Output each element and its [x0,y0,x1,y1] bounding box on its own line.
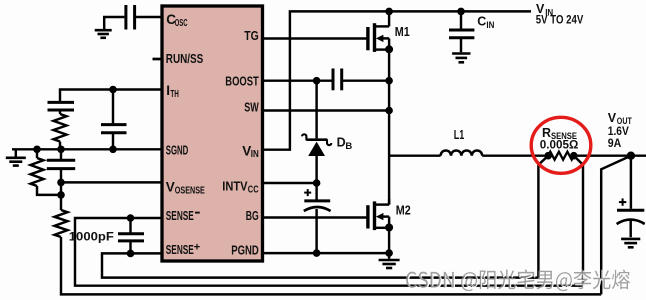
svg-text:V: V [166,179,175,194]
svg-text:OSC: OSC [175,18,188,29]
svg-text:B: B [345,141,352,152]
svg-text:TG: TG [244,28,259,43]
svg-text:BG: BG [246,208,259,223]
svg-text:1000pF: 1000pF [69,231,114,243]
svg-text:IN: IN [251,149,259,160]
svg-text:IN: IN [486,20,494,31]
svg-text:+: + [194,241,200,253]
svg-text:5V TO 24V: 5V TO 24V [536,15,584,27]
svg-text:C: C [477,15,486,29]
svg-text:SW: SW [244,100,259,115]
svg-text:CC: CC [248,185,259,196]
svg-text:SENSE: SENSE [166,208,194,223]
svg-text:INTV: INTV [222,179,247,194]
svg-text:BOOST: BOOST [225,73,259,88]
svg-text:PGND: PGND [231,243,259,258]
svg-text:M1: M1 [395,25,410,39]
svg-text:D: D [337,135,346,149]
svg-text:SGND: SGND [166,142,189,157]
svg-text:SENSE: SENSE [166,242,194,257]
svg-text:TH: TH [170,89,179,100]
svg-text:0.005Ω: 0.005Ω [540,138,579,152]
svg-text:9A: 9A [608,136,622,150]
svg-text:OSENSE: OSENSE [175,185,205,196]
svg-text:RUN/SS: RUN/SS [166,51,204,66]
svg-text:M2: M2 [396,204,411,218]
svg-text:L1: L1 [454,128,465,142]
